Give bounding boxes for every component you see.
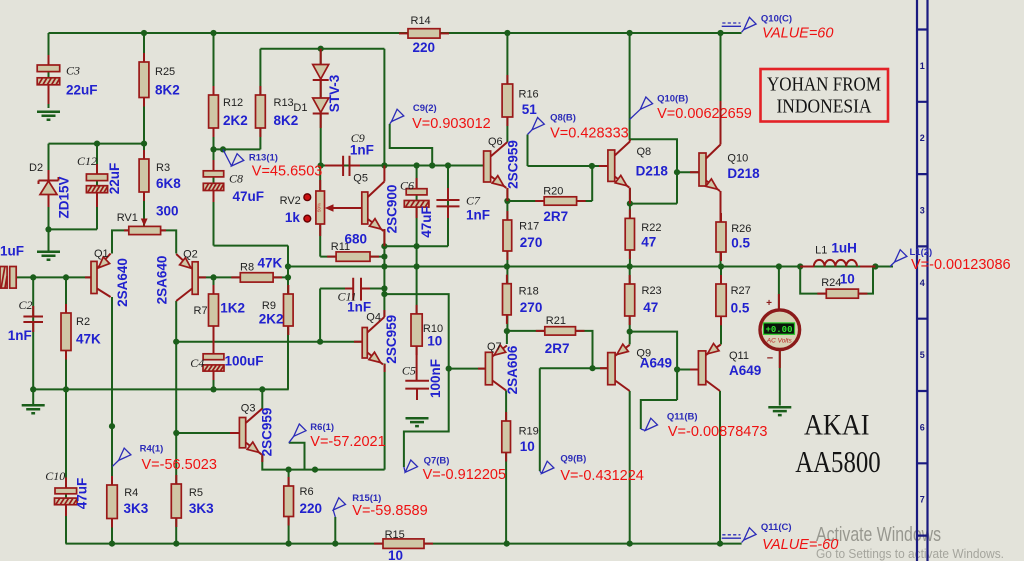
resistor R13 8K2 [256, 86, 299, 137]
svg-text:22uF: 22uF [66, 83, 98, 98]
svg-text:Q3: Q3 [241, 402, 256, 414]
svg-text:Q11(C): Q11(C) [761, 522, 792, 533]
svg-text:V=-0.00878473: V=-0.00878473 [668, 424, 768, 440]
sheet border ruler column [917, 0, 928, 561]
capacitor C6 47uF [400, 178, 434, 238]
wire Q8 emitter / R22 column [630, 189, 677, 267]
wire VAS input row (C9 row) [320, 166, 483, 257]
svg-text:AC Volts: AC Volts [766, 338, 793, 345]
resistor R9 2K2 [259, 285, 293, 335]
svg-text:R9: R9 [262, 300, 276, 312]
wire C4 bottom [213, 371, 215, 389]
AKAI AA5800 title [795, 408, 881, 479]
svg-text:10: 10 [427, 334, 442, 349]
resistor R16 51 [502, 75, 539, 126]
svg-text:2: 2 [920, 133, 925, 143]
svg-text:R3: R3 [156, 162, 170, 174]
wire ground rail (mid) [33, 388, 289, 390]
svg-text:Q8(B): Q8(B) [550, 112, 576, 123]
resistor R14 220 [399, 15, 449, 55]
resistor R26 0.5 [716, 213, 751, 261]
svg-text:V=0.428333: V=0.428333 [550, 126, 629, 142]
svg-text:VALUE=60: VALUE=60 [762, 25, 833, 41]
svg-text:C12: C12 [77, 154, 97, 168]
svg-text:6: 6 [920, 422, 925, 432]
wire R20 row [507, 166, 592, 201]
svg-text:R24: R24 [821, 277, 841, 289]
svg-text:A649: A649 [729, 363, 761, 378]
resistor R20 2R7 [535, 185, 585, 224]
svg-text:ZD15V: ZD15V [57, 176, 72, 218]
DC source -60V (VALUE=-60) [722, 522, 839, 553]
svg-text:1K2: 1K2 [220, 301, 245, 316]
transistor Q2 2SA640 [154, 248, 206, 304]
svg-text:R21: R21 [546, 315, 566, 327]
svg-text:1: 1 [920, 61, 925, 71]
svg-text:C5: C5 [402, 364, 416, 378]
svg-text:2SC900: 2SC900 [385, 185, 400, 234]
svg-text:R25: R25 [155, 66, 175, 78]
svg-text:3: 3 [920, 205, 925, 215]
wire Q9 collector column [629, 391, 631, 544]
wire C11 right to node [361, 288, 384, 290]
svg-text:V=0.903012: V=0.903012 [412, 116, 491, 132]
svg-text:R14: R14 [411, 15, 431, 27]
wire Q7 base probe stub [404, 369, 449, 467]
wire Q3 base [176, 432, 239, 434]
svg-text:Q11: Q11 [729, 350, 749, 362]
resistor R8 47K [231, 255, 282, 282]
wire Q3 collector stub [261, 389, 263, 409]
transistor Q8 D218 [599, 139, 668, 203]
resistor R2 47K [61, 304, 101, 360]
YOHAN FROM INDONESIA box [761, 69, 889, 122]
svg-text:R23: R23 [642, 285, 662, 297]
svg-text:270: 270 [520, 300, 543, 315]
resistor R5 3K3 [171, 475, 214, 527]
wire D2/C12 bias node [49, 144, 145, 251]
svg-text:2SC959: 2SC959 [506, 140, 521, 189]
transistor Q11 A649 [690, 344, 761, 392]
ground below D2/C12 [37, 252, 60, 260]
resistor R6 220 [284, 477, 322, 526]
transistor Q7 2SA606 [478, 341, 520, 395]
svg-text:R26: R26 [731, 223, 751, 235]
transistor Q1 2SA640 [85, 248, 130, 307]
transistor Q6 2SC959 [484, 136, 521, 201]
svg-text:220: 220 [300, 501, 323, 516]
svg-text:YOHAN FROM: YOHAN FROM [767, 75, 881, 96]
wire R15(1) probe stub [334, 517, 336, 544]
svg-text:RV1: RV1 [117, 212, 138, 224]
svg-text:220: 220 [413, 40, 436, 55]
wire Q2 base to R8/R7 [198, 277, 288, 353]
svg-text:R19: R19 [519, 425, 539, 437]
capacitor C7 1nF [436, 188, 490, 223]
svg-text:Q10(C): Q10(C) [761, 14, 792, 25]
svg-text:V=-0.912205: V=-0.912205 [423, 467, 506, 483]
svg-text:C6: C6 [400, 179, 414, 193]
resistor R19 10 [502, 412, 539, 462]
svg-text:8K2: 8K2 [274, 113, 299, 128]
svg-text:10: 10 [840, 272, 855, 287]
svg-text:100nF: 100nF [428, 359, 443, 398]
svg-text:2SA640: 2SA640 [115, 258, 130, 307]
svg-text:R13: R13 [274, 97, 294, 109]
wire Q3 emitter row [262, 364, 384, 470]
voltage probe R6(1) [289, 422, 386, 470]
svg-text:D218: D218 [636, 163, 669, 178]
resistor R21 2R7 [536, 315, 585, 356]
capacitor C5 100nF [402, 346, 443, 400]
svg-text:C10: C10 [45, 469, 65, 483]
svg-text:VALUE=-60: VALUE=-60 [762, 537, 838, 553]
wire R2/C10 branch [65, 277, 67, 543]
svg-text:R17: R17 [519, 220, 539, 232]
svg-text:R15: R15 [385, 529, 405, 541]
voltage probe C9(2) [390, 103, 491, 165]
svg-text:47uF: 47uF [419, 206, 434, 238]
svg-text:V=-0.431224: V=-0.431224 [560, 468, 643, 484]
svg-text:Q4: Q4 [366, 312, 381, 324]
diode D1 STV-3 [293, 49, 342, 128]
svg-text:RV2: RV2 [280, 195, 301, 207]
voltage probe L1(2) output [890, 247, 1011, 273]
voltage probe Q11(B) [641, 412, 768, 440]
svg-text:C7: C7 [466, 193, 481, 207]
resistor R24 10 [817, 272, 867, 299]
ground below C3 [37, 112, 60, 120]
svg-text:10: 10 [388, 548, 403, 561]
wire R16/Q6 collector column [506, 33, 508, 142]
transistor Q10 D218 [690, 101, 760, 222]
voltage probe Q9(B) [540, 453, 644, 483]
svg-text:V=-57.2021: V=-57.2021 [310, 434, 385, 450]
svg-text:8K2: 8K2 [155, 83, 180, 98]
svg-text:0.5: 0.5 [731, 236, 750, 251]
wire Q9 emitter / R23 column [629, 267, 631, 345]
capacitor C3 22uF [37, 55, 97, 104]
svg-text:47K: 47K [76, 331, 101, 346]
wire Q6 emitter / R17 / R18 column [506, 188, 509, 344]
svg-text:Q10(B): Q10(B) [657, 94, 688, 105]
svg-text:V=45.6503: V=45.6503 [252, 163, 323, 179]
wire R25-R3 column [143, 33, 145, 226]
resistor R7 1K2 [194, 285, 245, 335]
svg-text:C9(2): C9(2) [413, 103, 437, 114]
svg-text:Q1: Q1 [94, 248, 109, 260]
svg-text:50%: 50% [316, 203, 321, 212]
wire Q2 collector to Q4 base [176, 341, 362, 343]
Activate Windows watermark [816, 524, 1004, 561]
svg-text:47uF: 47uF [75, 478, 90, 510]
svg-text:2SC959: 2SC959 [260, 408, 275, 457]
svg-text:Q7: Q7 [487, 341, 502, 353]
transistor Q9 A649 [600, 344, 672, 391]
svg-text:D1: D1 [293, 102, 307, 114]
svg-text:Q9(B): Q9(B) [560, 453, 586, 464]
resistor R17 270 [503, 211, 542, 260]
svg-text:+0.00: +0.00 [765, 325, 792, 335]
svg-text:R6: R6 [300, 486, 314, 498]
voltage probe R4(1) [113, 444, 217, 473]
resistor R18 270 [503, 275, 543, 324]
resistor R23 47 [625, 275, 662, 325]
wire R6 column [288, 470, 290, 544]
capacitor C8 47uF [203, 160, 264, 204]
svg-text:6K8: 6K8 [156, 176, 181, 191]
svg-text:100uF: 100uF [225, 353, 264, 368]
wire C11 left branch [320, 289, 353, 342]
svg-text:R27: R27 [731, 285, 751, 297]
svg-text:1nF: 1nF [350, 142, 374, 157]
svg-text:5: 5 [920, 350, 925, 360]
inductor L1 1uH [800, 240, 875, 266]
voltage probe Q10(B) [630, 94, 752, 122]
svg-text:AKAI: AKAI [804, 408, 870, 441]
wire -60V bottom rail [66, 543, 742, 545]
wire R21 row to Q9 base [507, 331, 608, 471]
svg-text:300: 300 [156, 203, 179, 218]
svg-text:R4: R4 [124, 487, 138, 499]
svg-text:D218: D218 [727, 166, 760, 181]
wire Q8 base [528, 135, 608, 167]
svg-text:Q8: Q8 [637, 146, 652, 158]
capacitor C9 1nF [325, 131, 374, 176]
voltage probe Q7(B) [404, 455, 506, 483]
wire RV1 left to Q1 emitter [112, 230, 129, 253]
svg-text:1nF: 1nF [466, 208, 490, 223]
svg-text:2K2: 2K2 [223, 113, 248, 128]
svg-text:R16: R16 [519, 89, 539, 101]
wire VAS out to Q7 base [384, 294, 485, 369]
svg-text:+: + [766, 298, 772, 309]
svg-text:−: − [767, 353, 773, 365]
ground below C2 junction [22, 405, 45, 413]
svg-text:0.5: 0.5 [731, 300, 750, 315]
svg-text:2SC959: 2SC959 [384, 315, 399, 364]
AC voltmeter [760, 294, 800, 368]
zener diode D2 ZD15V [29, 162, 72, 219]
ground below C5 [406, 418, 429, 426]
svg-text:Q11(B): Q11(B) [667, 412, 698, 423]
potentiometer RV2 1k [280, 180, 362, 236]
capacitor C2 1nF [8, 298, 43, 343]
svg-text:Go to Settings to activate Win: Go to Settings to activate Windows. [816, 547, 1004, 561]
svg-text:1nF: 1nF [8, 328, 32, 343]
svg-text:Q6: Q6 [488, 136, 503, 148]
svg-text:1k: 1k [285, 210, 301, 225]
svg-text:47: 47 [643, 300, 658, 315]
svg-text:INDONESIA: INDONESIA [777, 97, 872, 118]
wire input node [16, 276, 91, 278]
transistor Q4 2SC959 [354, 310, 399, 372]
potentiometer RV1 300 [117, 212, 166, 235]
wire output rail [288, 266, 893, 268]
svg-text:C4: C4 [190, 356, 204, 370]
voltage probe Q8(B) [528, 112, 629, 141]
DC source +60V (VALUE=60) [722, 14, 834, 42]
resistor R27 0.5 [716, 275, 751, 325]
wire Q2 collector column [175, 301, 177, 544]
wire Q9 emitter row to Q11 base [630, 332, 699, 429]
svg-text:C8: C8 [229, 172, 243, 186]
svg-text:R7: R7 [194, 305, 208, 317]
wire R9 column [287, 246, 289, 390]
wire C2 branch [32, 277, 34, 404]
svg-text:R6(1): R6(1) [310, 422, 334, 433]
wire R12 column [213, 33, 215, 149]
svg-text:3K3: 3K3 [189, 501, 214, 516]
svg-text:R4(1): R4(1) [140, 444, 164, 455]
wire Q11 collector column [719, 391, 721, 544]
wire Q7 collector / R19 column [505, 391, 507, 544]
svg-text:D2: D2 [29, 162, 43, 174]
svg-text:1uH: 1uH [831, 240, 857, 255]
transistor Q5 2SC900 [353, 166, 399, 247]
svg-text:R20: R20 [543, 185, 563, 197]
svg-text:47K: 47K [258, 255, 283, 270]
svg-text:680: 680 [345, 231, 368, 246]
svg-text:R18: R18 [519, 285, 539, 297]
capacitor C12 22uF [77, 154, 122, 207]
svg-text:R13(1): R13(1) [249, 153, 278, 164]
svg-text:Q10: Q10 [727, 153, 748, 165]
resistor R22 47 [625, 209, 661, 259]
svg-text:A649: A649 [640, 356, 672, 371]
capacitor C11 1nF [338, 278, 372, 315]
svg-text:R12: R12 [223, 97, 243, 109]
wire Q10 collector [720, 33, 722, 145]
svg-text:AA5800: AA5800 [795, 444, 881, 479]
svg-text:47uF: 47uF [233, 189, 265, 204]
capacitor C10 47uF [45, 469, 89, 516]
voltage probe R15(1) [333, 493, 427, 519]
wire Q8 collector from rail [630, 33, 699, 204]
wire R24 parallel loop [800, 267, 873, 294]
wire RV1 right to Q2 emitter [161, 230, 177, 253]
svg-text:Q5: Q5 [353, 173, 368, 185]
resistor R25 8K2 [139, 53, 180, 107]
svg-text:51: 51 [522, 102, 538, 117]
svg-text:2R7: 2R7 [545, 341, 570, 356]
svg-text:2R7: 2R7 [543, 209, 568, 224]
svg-text:2SA640: 2SA640 [154, 256, 169, 305]
resistor R3 6K8 [139, 150, 181, 218]
svg-text:V=-59.8589: V=-59.8589 [352, 503, 427, 519]
wire Q1 collector column [111, 297, 113, 544]
svg-text:1uF: 1uF [0, 244, 24, 259]
wire voltmeter branch [778, 267, 781, 406]
svg-text:7: 7 [920, 495, 925, 505]
svg-text:R5: R5 [189, 487, 203, 499]
svg-text:R22: R22 [641, 222, 661, 234]
wire C3 branch [48, 33, 50, 108]
resistor R4 3K3 [107, 476, 149, 528]
svg-text:R2: R2 [76, 316, 90, 328]
svg-text:22uF: 22uF [107, 163, 122, 195]
ground below voltmeter [768, 407, 791, 415]
wire Q11 emitter / R27 column [720, 267, 722, 345]
svg-text:2SA606: 2SA606 [505, 345, 520, 394]
svg-text:C3: C3 [66, 64, 80, 78]
transistor Q3 2SC959 [230, 402, 275, 462]
svg-text:V=-0.00123086: V=-0.00123086 [911, 257, 1011, 273]
svg-text:Q2: Q2 [183, 248, 198, 260]
wire C8 node row [214, 149, 289, 294]
capacitor C1 1uF input [0, 244, 24, 289]
resistor R15 10 [374, 529, 433, 561]
wire +60V top rail [49, 32, 742, 34]
wire Q5 emitter / R11 node [320, 166, 448, 317]
svg-text:R8: R8 [240, 262, 254, 274]
svg-text:Q7(B): Q7(B) [424, 455, 450, 466]
svg-text:C2: C2 [19, 298, 33, 312]
svg-text:4: 4 [920, 278, 925, 288]
resistor R11 680 [327, 231, 379, 261]
svg-text:2K2: 2K2 [259, 311, 284, 326]
svg-text:3K3: 3K3 [124, 501, 149, 516]
resistor R10 10 [411, 305, 443, 355]
svg-text:47: 47 [641, 235, 656, 250]
svg-text:V=0.00622659: V=0.00622659 [657, 106, 752, 122]
svg-text:V=-56.5023: V=-56.5023 [142, 457, 217, 473]
wire Q10 emitter / R26 column [720, 192, 722, 267]
svg-text:STV-3: STV-3 [327, 74, 342, 112]
svg-text:270: 270 [520, 235, 543, 250]
capacitor C4 100uF [190, 326, 263, 380]
svg-text:10: 10 [520, 439, 535, 454]
resistor R12 2K2 [209, 86, 248, 137]
voltage probe R13(1) [223, 149, 322, 179]
svg-text:L1: L1 [815, 244, 827, 256]
wire R13/D1 top link [260, 49, 384, 166]
